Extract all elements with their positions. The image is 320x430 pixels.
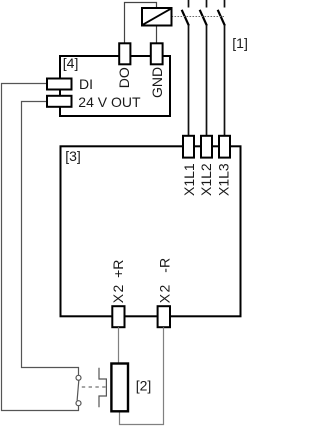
svg-text:X2: X2 <box>110 283 126 303</box>
svg-text:[4]: [4] <box>63 55 79 71</box>
svg-text:X1L3: X1L3 <box>216 163 232 196</box>
svg-text:-R: -R <box>157 258 173 273</box>
svg-text:X1L1: X1L1 <box>181 163 197 196</box>
svg-text:[1]: [1] <box>232 35 248 51</box>
svg-text:[3]: [3] <box>65 148 81 164</box>
svg-text:X2: X2 <box>157 283 173 303</box>
svg-text:DO: DO <box>116 67 132 88</box>
svg-text:X1L2: X1L2 <box>198 163 214 196</box>
svg-text:24 V OUT: 24 V OUT <box>78 94 141 110</box>
svg-text:DI: DI <box>79 76 93 92</box>
svg-text:+R: +R <box>110 260 126 278</box>
svg-text:[2]: [2] <box>136 378 152 394</box>
svg-text:GND: GND <box>149 67 165 98</box>
